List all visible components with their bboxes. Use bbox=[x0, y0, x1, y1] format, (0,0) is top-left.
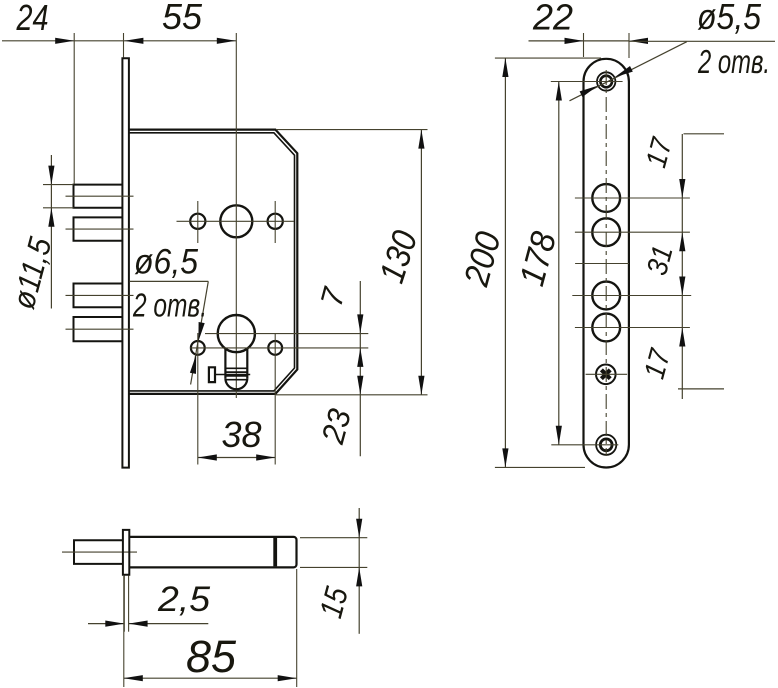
svg-text:2,5: 2,5 bbox=[157, 580, 211, 619]
svg-text:22: 22 bbox=[532, 0, 573, 38]
svg-text:ø6,5: ø6,5 bbox=[134, 243, 198, 282]
svg-text:55: 55 bbox=[162, 0, 203, 37]
svg-text:85: 85 bbox=[186, 631, 237, 682]
svg-text:ø5,5: ø5,5 bbox=[697, 0, 762, 37]
svg-text:38: 38 bbox=[222, 414, 262, 455]
svg-text:2 отв.: 2 отв. bbox=[132, 287, 207, 324]
svg-text:24: 24 bbox=[16, 0, 49, 38]
svg-text:2 отв.: 2 отв. bbox=[697, 43, 770, 80]
